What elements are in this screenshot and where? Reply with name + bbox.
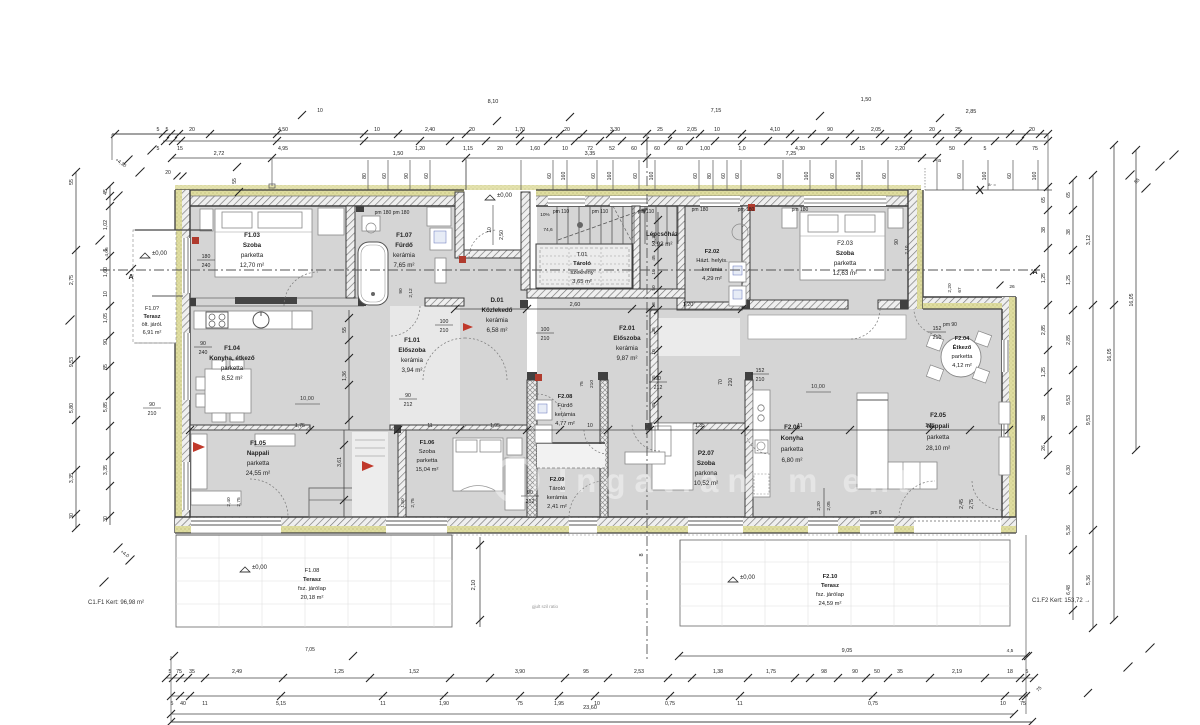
svg-text:10: 10 — [317, 108, 323, 114]
svg-text:3,12: 3,12 — [1086, 235, 1092, 245]
svg-text:Ingatlan: Ingatlan — [558, 462, 757, 499]
svg-text:2,85: 2,85 — [966, 109, 977, 115]
svg-text:parkona: parkona — [695, 470, 718, 477]
svg-text:Étkező: Étkező — [953, 343, 972, 351]
svg-text:F1.03: F1.03 — [244, 232, 260, 239]
svg-text:2,53: 2,53 — [634, 669, 644, 675]
svg-text:210: 210 — [440, 328, 449, 334]
svg-text:2,10: 2,10 — [904, 245, 909, 254]
svg-text:4,5: 4,5 — [1007, 648, 1014, 654]
svg-text:240: 240 — [199, 350, 208, 356]
svg-text:38: 38 — [1066, 229, 1072, 235]
svg-text:1,75: 1,75 — [766, 669, 776, 675]
svg-text:60: 60 — [677, 146, 683, 152]
svg-text:2,20: 2,20 — [895, 146, 905, 152]
svg-text:90: 90 — [398, 288, 404, 294]
svg-text:30: 30 — [103, 516, 109, 522]
svg-text:1,50: 1,50 — [400, 498, 406, 508]
svg-text:90: 90 — [200, 341, 206, 347]
svg-text:25: 25 — [657, 127, 663, 133]
svg-text:Terasz: Terasz — [303, 577, 321, 583]
svg-text:3,93 m²: 3,93 m² — [652, 241, 673, 248]
svg-text:60: 60 — [547, 173, 553, 179]
svg-text:2,85: 2,85 — [1066, 335, 1072, 345]
svg-text:210: 210 — [933, 335, 942, 341]
svg-text:85: 85 — [103, 364, 109, 370]
svg-text:F1.04: F1.04 — [224, 345, 240, 352]
svg-text:11: 11 — [737, 701, 742, 707]
svg-text:2,20: 2,20 — [947, 283, 953, 293]
svg-text:9,53: 9,53 — [69, 357, 75, 367]
svg-text:100: 100 — [541, 327, 550, 333]
svg-text:Szoba: Szoba — [243, 242, 262, 249]
svg-text:1,50: 1,50 — [861, 97, 872, 103]
svg-text:60: 60 — [382, 173, 388, 179]
svg-text:28,10 m²: 28,10 m² — [926, 445, 950, 452]
svg-text:2,60: 2,60 — [570, 302, 581, 308]
svg-text:24,59 m²: 24,59 m² — [819, 601, 842, 607]
svg-text:70: 70 — [718, 379, 724, 385]
svg-text:3,65 m²: 3,65 m² — [572, 279, 592, 285]
svg-text:szekrény: szekrény — [570, 270, 593, 276]
svg-text:240: 240 — [202, 263, 211, 269]
svg-text:35: 35 — [897, 669, 903, 675]
svg-text:9,53: 9,53 — [1086, 415, 1092, 425]
svg-text:160: 160 — [804, 172, 810, 181]
svg-text:20: 20 — [189, 127, 195, 133]
svg-text:kerámia: kerámia — [547, 495, 568, 501]
svg-text:10,00: 10,00 — [811, 384, 825, 390]
svg-text:90: 90 — [405, 393, 411, 399]
svg-text:- a: - a — [935, 158, 941, 164]
svg-text:50: 50 — [949, 146, 955, 152]
svg-text:160: 160 — [982, 172, 988, 181]
svg-text:pm 0: pm 0 — [870, 510, 881, 516]
svg-text:12,70 m²: 12,70 m² — [240, 262, 264, 269]
svg-text:kerámia: kerámia — [401, 357, 424, 364]
svg-text:1,50: 1,50 — [393, 151, 404, 157]
svg-text:F1.08: F1.08 — [305, 568, 320, 574]
svg-text:25: 25 — [955, 127, 961, 133]
svg-text:1,38: 1,38 — [713, 669, 723, 675]
svg-text:212: 212 — [404, 402, 413, 408]
svg-text:2,45: 2,45 — [959, 499, 965, 509]
svg-text:kerámia: kerámia — [393, 252, 416, 259]
svg-text:1,90: 1,90 — [439, 701, 449, 707]
svg-text:90: 90 — [149, 402, 155, 408]
svg-text:180: 180 — [202, 254, 211, 260]
svg-text:3,35: 3,35 — [69, 473, 75, 483]
svg-text:152: 152 — [933, 326, 942, 332]
svg-text:F1.05: F1.05 — [250, 440, 266, 447]
svg-text:kerámia: kerámia — [555, 412, 576, 418]
svg-text:2,72: 2,72 — [214, 151, 225, 157]
svg-text:60: 60 — [721, 173, 727, 179]
svg-text:1,95: 1,95 — [490, 423, 500, 429]
svg-text:210: 210 — [148, 411, 157, 417]
svg-text:40: 40 — [180, 701, 186, 707]
svg-text:60: 60 — [882, 173, 888, 179]
svg-text:3,61: 3,61 — [337, 457, 343, 467]
svg-text:2,40: 2,40 — [425, 127, 435, 133]
svg-text:pm 110: pm 110 — [553, 209, 570, 215]
svg-text:Fürdő: Fürdő — [557, 403, 572, 409]
svg-text:9,87 m²: 9,87 m² — [617, 355, 638, 362]
svg-text:2,05: 2,05 — [826, 501, 832, 511]
svg-text:60: 60 — [631, 146, 637, 152]
svg-text:1,35: 1,35 — [695, 423, 705, 429]
svg-text:1,25: 1,25 — [1066, 275, 1072, 285]
svg-text:1,52: 1,52 — [409, 669, 419, 675]
svg-text:30: 30 — [69, 513, 75, 519]
svg-text:35: 35 — [651, 327, 657, 333]
svg-text:15: 15 — [859, 146, 865, 152]
svg-text:F2.04: F2.04 — [955, 336, 971, 342]
svg-text:4,10: 4,10 — [770, 127, 780, 133]
svg-text:75: 75 — [1020, 701, 1026, 707]
svg-text:52: 52 — [609, 146, 615, 152]
svg-text:kerámia: kerámia — [702, 267, 723, 273]
svg-text:F2.10: F2.10 — [823, 574, 838, 580]
svg-text:pm 180 pm 180: pm 180 pm 180 — [375, 210, 410, 216]
svg-text:7,05: 7,05 — [305, 647, 315, 653]
svg-text:F2.06: F2.06 — [784, 424, 800, 431]
svg-text:1,25: 1,25 — [1041, 273, 1047, 283]
svg-text:6,48: 6,48 — [1066, 585, 1072, 595]
svg-text:90: 90 — [827, 127, 833, 133]
svg-text:10: 10 — [103, 291, 109, 297]
svg-text:pm 110: pm 110 — [592, 209, 609, 215]
svg-text:pm 180: pm 180 — [738, 207, 755, 213]
svg-text:2,49: 2,49 — [232, 669, 242, 675]
svg-text:55: 55 — [232, 178, 238, 184]
svg-text:75: 75 — [1032, 146, 1038, 152]
svg-text:10: 10 — [587, 423, 593, 429]
svg-text:2,40: 2,40 — [226, 497, 232, 507]
svg-text:Szoba: Szoba — [419, 449, 436, 455]
svg-text:60: 60 — [777, 173, 783, 179]
svg-text:80: 80 — [362, 173, 368, 179]
svg-text:gjult szil ratio: gjult szil ratio — [532, 604, 559, 609]
svg-text:60: 60 — [693, 173, 699, 179]
svg-text:pm 110: pm 110 — [638, 209, 655, 215]
svg-text:±0,00: ±0,00 — [740, 575, 756, 581]
svg-text:5: 5 — [166, 127, 169, 133]
svg-text:26: 26 — [1041, 445, 1047, 451]
svg-text:1,25: 1,25 — [1041, 367, 1047, 377]
svg-text:60: 60 — [424, 173, 430, 179]
svg-text:F1.01: F1.01 — [404, 337, 420, 344]
svg-text:5: 5 — [157, 146, 160, 152]
svg-text:C1.F2 Kert: 153,72 →: C1.F2 Kert: 153,72 → — [1032, 598, 1090, 604]
svg-text:24,55 m²: 24,55 m² — [246, 470, 270, 477]
svg-text:10: 10 — [714, 127, 720, 133]
svg-text:20: 20 — [564, 127, 570, 133]
svg-text:parketta: parketta — [952, 354, 974, 360]
svg-text:0,75: 0,75 — [665, 701, 675, 707]
svg-text:26: 26 — [1009, 284, 1015, 290]
svg-text:90: 90 — [852, 669, 858, 675]
svg-text:160: 160 — [649, 172, 655, 181]
svg-text:95: 95 — [583, 669, 589, 675]
svg-text:4,50: 4,50 — [278, 127, 288, 133]
svg-text:5,80: 5,80 — [69, 403, 75, 413]
svg-text:1,20: 1,20 — [415, 146, 425, 152]
svg-text:6,58 m²: 6,58 m² — [487, 327, 508, 334]
svg-text:5: 5 — [157, 127, 160, 133]
svg-text:210: 210 — [541, 336, 550, 342]
svg-text:1,75: 1,75 — [295, 423, 305, 429]
svg-text:160: 160 — [1032, 172, 1038, 181]
svg-text:F2.05: F2.05 — [930, 412, 946, 419]
svg-text:1,70: 1,70 — [515, 127, 525, 133]
svg-text:pm 90: pm 90 — [943, 322, 957, 328]
svg-text:4,05: 4,05 — [104, 247, 110, 257]
svg-text:F1.06: F1.06 — [420, 440, 436, 446]
svg-text:fsz. járólap: fsz. járólap — [816, 592, 844, 598]
svg-text:±0,00: ±0,00 — [252, 565, 268, 571]
svg-text:F1.07: F1.07 — [396, 232, 412, 239]
svg-text:Szoba: Szoba — [836, 250, 855, 257]
svg-text:4,29 m²: 4,29 m² — [702, 276, 722, 282]
svg-text:2,20: 2,20 — [816, 501, 822, 511]
svg-text:Lépcsőház: Lépcsőház — [646, 231, 678, 238]
svg-text:90: 90 — [894, 239, 900, 245]
svg-text:6,30: 6,30 — [1066, 465, 1072, 475]
svg-text:F2.09: F2.09 — [550, 477, 566, 483]
svg-text:20: 20 — [469, 127, 475, 133]
svg-text:T.01: T.01 — [577, 252, 588, 258]
svg-text:kerámia: kerámia — [486, 317, 509, 324]
svg-text:160: 160 — [856, 172, 862, 181]
svg-text:2,75: 2,75 — [969, 499, 975, 509]
svg-text:5,36: 5,36 — [1066, 525, 1072, 535]
svg-text:4,30: 4,30 — [795, 146, 805, 152]
svg-text:±0,00: ±0,00 — [497, 193, 513, 199]
svg-text:80: 80 — [707, 173, 713, 179]
svg-text:20: 20 — [497, 146, 503, 152]
svg-text:210: 210 — [589, 380, 595, 388]
svg-text:90: 90 — [655, 376, 661, 382]
svg-text:210: 210 — [756, 377, 765, 383]
svg-text:6,80 m²: 6,80 m² — [782, 457, 803, 464]
svg-text:212: 212 — [526, 499, 535, 505]
svg-text:10: 10 — [651, 349, 657, 355]
svg-text:Közlekedő: Közlekedő — [482, 307, 513, 314]
svg-text:2,75: 2,75 — [69, 275, 75, 285]
svg-text:Fürdő: Fürdő — [395, 242, 413, 249]
svg-text:152: 152 — [756, 368, 765, 374]
svg-text:Előszoba: Előszoba — [613, 335, 641, 342]
svg-text:50: 50 — [651, 285, 657, 291]
svg-text:A: A — [128, 274, 133, 281]
svg-text:2,50: 2,50 — [499, 230, 505, 240]
svg-text:4,95: 4,95 — [278, 146, 288, 152]
svg-text:5: 5 — [984, 146, 987, 152]
svg-text:10: 10 — [487, 227, 493, 233]
svg-text:3,30: 3,30 — [610, 127, 620, 133]
svg-text:20: 20 — [1029, 127, 1035, 133]
svg-text:Nappali: Nappali — [927, 423, 950, 430]
svg-text:65: 65 — [1066, 192, 1072, 198]
svg-text:parketta: parketta — [781, 446, 804, 453]
svg-text:2,19: 2,19 — [952, 669, 962, 675]
svg-text:20: 20 — [165, 170, 171, 176]
svg-text:Konyha, étkező: Konyha, étkező — [209, 355, 255, 362]
svg-text:F2.03: F2.03 — [837, 240, 853, 247]
svg-text:8: 8 — [639, 553, 645, 556]
svg-text:60: 60 — [830, 173, 836, 179]
svg-text:90: 90 — [404, 173, 410, 179]
svg-text:38: 38 — [1041, 415, 1047, 421]
svg-text:11: 11 — [202, 701, 207, 707]
svg-text:1,0: 1,0 — [738, 146, 745, 152]
svg-text:7,65 m²: 7,65 m² — [394, 262, 415, 269]
svg-text:m ent: m ent — [788, 462, 916, 499]
svg-text:Tároló: Tároló — [573, 261, 591, 267]
svg-text:55: 55 — [342, 327, 348, 333]
svg-text:1,20: 1,20 — [683, 302, 694, 308]
svg-text:10%: 10% — [540, 212, 550, 218]
svg-text:2,75: 2,75 — [236, 497, 242, 507]
svg-text:Konyha: Konyha — [781, 435, 804, 442]
svg-text:parketta: parketta — [247, 460, 270, 467]
svg-text:18: 18 — [651, 302, 657, 308]
svg-text:15: 15 — [177, 146, 183, 152]
svg-text:75: 75 — [579, 381, 585, 387]
svg-text:212: 212 — [654, 385, 663, 391]
svg-text:Házt. helyis.: Házt. helyis. — [696, 258, 728, 264]
svg-text:5,36: 5,36 — [1086, 575, 1092, 585]
svg-text:7,25: 7,25 — [786, 151, 797, 157]
svg-text:4,77 m²: 4,77 m² — [555, 421, 575, 427]
svg-text:60: 60 — [1007, 173, 1013, 179]
svg-text:6,91 m²: 6,91 m² — [143, 330, 162, 336]
svg-text:9,53: 9,53 — [1066, 395, 1072, 405]
svg-text:1,00: 1,00 — [700, 146, 710, 152]
svg-text:60: 60 — [735, 173, 741, 179]
svg-text:parketta: parketta — [417, 458, 439, 464]
svg-text:8,52 m²: 8,52 m² — [222, 375, 243, 382]
svg-text:1,05: 1,05 — [103, 313, 109, 323]
svg-text:67: 67 — [957, 287, 963, 293]
svg-text:16,05: 16,05 — [1129, 293, 1135, 306]
svg-text:3,35: 3,35 — [103, 465, 109, 475]
svg-text:1,95: 1,95 — [554, 701, 564, 707]
svg-text:Terasz: Terasz — [143, 314, 160, 320]
svg-text:65: 65 — [1041, 197, 1047, 203]
svg-text:38: 38 — [1041, 227, 1047, 233]
svg-text:3,94 m²: 3,94 m² — [402, 367, 423, 374]
svg-text:pm 180: pm 180 — [692, 207, 709, 213]
svg-text:11: 11 — [380, 701, 385, 707]
svg-text:Nappali: Nappali — [247, 450, 270, 457]
svg-text:160: 160 — [607, 172, 613, 181]
svg-text:60: 60 — [957, 173, 963, 179]
svg-text:9,05: 9,05 — [842, 648, 853, 654]
svg-text:0,75: 0,75 — [868, 701, 878, 707]
svg-text:15,04 m²: 15,04 m² — [416, 467, 439, 473]
svg-text:D.01: D.01 — [490, 297, 504, 304]
svg-text:35: 35 — [189, 669, 195, 675]
svg-text:Tároló: Tároló — [549, 486, 565, 492]
svg-text:5,15: 5,15 — [276, 701, 286, 707]
svg-text:1,60: 1,60 — [103, 267, 109, 277]
svg-text:2,12: 2,12 — [408, 288, 414, 298]
svg-text:90: 90 — [527, 490, 533, 496]
svg-text:10: 10 — [1000, 701, 1006, 707]
svg-text:Szoba: Szoba — [697, 460, 716, 467]
svg-text:2,05: 2,05 — [871, 127, 881, 133]
svg-text:10: 10 — [651, 269, 657, 275]
svg-text:98: 98 — [821, 669, 827, 675]
svg-text:12,63 m²: 12,63 m² — [833, 270, 857, 277]
svg-text:kerámia: kerámia — [616, 345, 639, 352]
svg-text:3,90: 3,90 — [515, 669, 525, 675]
svg-text:8,10: 8,10 — [488, 99, 499, 105]
svg-text:55: 55 — [69, 179, 75, 185]
svg-text:Előszoba: Előszoba — [398, 347, 426, 354]
svg-text:10,52 m²: 10,52 m² — [694, 480, 718, 487]
svg-text:parketta: parketta — [221, 365, 244, 372]
svg-text:20: 20 — [929, 127, 935, 133]
svg-text:±0,00: ±0,00 — [152, 251, 168, 257]
svg-text:100: 100 — [440, 319, 449, 325]
svg-text:3,35: 3,35 — [585, 151, 596, 157]
svg-text:F2.01: F2.01 — [619, 325, 635, 332]
svg-text:7,15: 7,15 — [711, 108, 722, 114]
svg-text:ölt. járól.: ölt. járól. — [142, 322, 163, 328]
svg-text:F2.02: F2.02 — [705, 249, 720, 255]
svg-text:160: 160 — [561, 172, 567, 181]
svg-text:2,75: 2,75 — [410, 498, 416, 508]
svg-text:1,25: 1,25 — [334, 669, 344, 675]
svg-text:F2.08: F2.08 — [558, 394, 574, 400]
svg-text:1,60: 1,60 — [530, 146, 540, 152]
svg-text:60: 60 — [654, 146, 660, 152]
svg-text:5,85: 5,85 — [103, 402, 109, 412]
svg-text:74,6: 74,6 — [543, 227, 553, 233]
svg-text:10: 10 — [374, 127, 380, 133]
svg-text:P2.07: P2.07 — [698, 450, 715, 457]
svg-text:16,05: 16,05 — [1107, 348, 1113, 361]
svg-text:18: 18 — [1007, 669, 1013, 675]
svg-text:75: 75 — [176, 669, 182, 675]
svg-text:10,00: 10,00 — [300, 396, 314, 402]
svg-text:210: 210 — [728, 378, 734, 387]
svg-text:fsz. járólap: fsz. járólap — [298, 586, 326, 592]
svg-text:parketta: parketta — [241, 252, 264, 259]
svg-text:45: 45 — [103, 189, 109, 195]
svg-text:85: 85 — [651, 402, 657, 408]
svg-text:1,15: 1,15 — [463, 146, 473, 152]
svg-text:a· =: a· = — [988, 182, 996, 187]
svg-text:F1.0?: F1.0? — [145, 306, 159, 312]
svg-text:20,18 m²: 20,18 m² — [301, 595, 324, 601]
svg-text:60: 60 — [633, 173, 639, 179]
svg-text:90: 90 — [103, 339, 109, 345]
svg-text:45: 45 — [651, 255, 657, 261]
svg-text:parketta: parketta — [927, 434, 950, 441]
svg-text:2,10: 2,10 — [471, 580, 477, 591]
svg-text:pm 180: pm 180 — [792, 207, 809, 213]
svg-text:2,41 m²: 2,41 m² — [547, 504, 567, 510]
svg-text:Terasz: Terasz — [821, 583, 839, 589]
svg-text:60: 60 — [591, 173, 597, 179]
svg-text:C1.F1 Kert: 96,98 m²: C1.F1 Kert: 96,98 m² — [88, 600, 144, 606]
svg-text:75: 75 — [517, 701, 523, 707]
svg-text:10: 10 — [562, 146, 568, 152]
